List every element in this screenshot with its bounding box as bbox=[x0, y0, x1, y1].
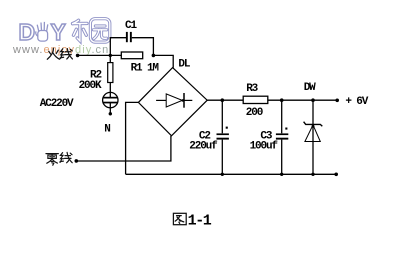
wire R2 top lead bbox=[109, 55, 111, 62]
svg-text:AC220V: AC220V bbox=[40, 98, 74, 110]
resistor R1 bbox=[121, 52, 142, 59]
node bottom rail end bbox=[334, 173, 338, 177]
svg-text:1-1: 1-1 bbox=[188, 213, 212, 230]
wire bottom rail bbox=[126, 173, 337, 175]
resistor R2 bbox=[108, 63, 113, 83]
node neutral input terminal bbox=[75, 159, 79, 163]
wire C3 top lead bbox=[281, 100, 283, 133]
capacitor C3 bbox=[276, 128, 288, 140]
svg-text:DW: DW bbox=[304, 82, 316, 94]
svg-text:100uf: 100uf bbox=[250, 141, 279, 153]
junction C2 top bbox=[221, 98, 225, 102]
resistor R3 bbox=[243, 96, 268, 103]
svg-text:R1 1M: R1 1M bbox=[131, 63, 160, 75]
wire C1 left leg bbox=[110, 38, 126, 56]
junction C3 top bbox=[280, 98, 284, 102]
wire C2 top lead bbox=[221, 100, 223, 133]
junction live/C1/R2 bbox=[109, 54, 112, 57]
svg-text:220uf: 220uf bbox=[189, 141, 218, 153]
node: live input terminal bbox=[76, 54, 80, 58]
junction DW top bbox=[311, 98, 315, 102]
svg-text:R3: R3 bbox=[246, 83, 258, 95]
wire DW top lead bbox=[312, 100, 314, 141]
wire top rail left segment bbox=[207, 99, 243, 101]
wire DW bottom lead bbox=[312, 142, 314, 175]
junction C2 bottom bbox=[221, 173, 224, 176]
zener diode DW bbox=[304, 122, 323, 142]
wire live rail to R1 bbox=[78, 54, 122, 56]
svg-text:+ 6V: + 6V bbox=[345, 96, 368, 108]
label 零线 (neutral wire) bbox=[46, 152, 72, 165]
junction DW bottom bbox=[311, 173, 314, 176]
junction C3 bottom bbox=[280, 173, 283, 176]
svg-text:DL: DL bbox=[178, 58, 190, 70]
wire bridge negative to bottom rail bbox=[126, 102, 139, 174]
svg-text:D: D bbox=[19, 19, 36, 45]
watermark 乐 glyph bbox=[73, 20, 87, 41]
junction R1/C1 output bbox=[152, 54, 156, 58]
node N terminal bbox=[109, 112, 112, 115]
bridge internal diode bbox=[156, 93, 192, 108]
wire top rail right segment bbox=[268, 99, 337, 101]
capacitor C1 bbox=[126, 32, 132, 42]
wire neutral to bridge bottom bbox=[76, 136, 171, 161]
label 火线 (live wire) bbox=[47, 48, 72, 59]
wire R2 to lamp bbox=[109, 83, 111, 98]
wire C1 right leg bbox=[132, 38, 154, 56]
capacitor C2 bbox=[217, 127, 229, 140]
svg-text:200K: 200K bbox=[79, 80, 102, 92]
svg-text:www.enjoydiy.cn: www.enjoydiy.cn bbox=[12, 44, 109, 56]
svg-text:C1: C1 bbox=[125, 20, 137, 32]
wire lamp bottom lead bbox=[109, 103, 111, 114]
node +6V output terminal bbox=[335, 99, 339, 103]
watermark 园 glyph bbox=[90, 19, 109, 42]
caption 图1-1 bbox=[173, 213, 186, 224]
svg-text:Y: Y bbox=[51, 19, 66, 45]
bridge rectifier DL bbox=[138, 68, 207, 136]
neon lamp bbox=[103, 92, 118, 107]
svg-text:200: 200 bbox=[246, 107, 263, 119]
wire C2 bottom lead bbox=[221, 140, 223, 175]
wire C3 bottom lead bbox=[281, 140, 283, 175]
svg-text:N: N bbox=[104, 123, 110, 135]
wire to bridge top bbox=[153, 55, 173, 67]
watermark logo DIY乐园 bbox=[19, 19, 66, 45]
